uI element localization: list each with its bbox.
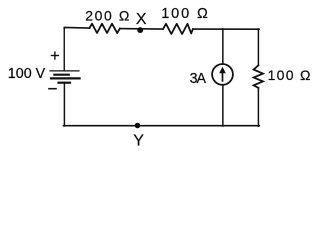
svg-text:100 V: 100 V — [8, 66, 46, 82]
svg-text:200 Ω: 200 Ω — [85, 8, 131, 24]
wire: top rail right segment (R2 to top-right corner) — [193, 28, 259, 30]
battery V1: plate 3 (long) — [51, 77, 80, 79]
wire: current source branch, I1 down to bottom rail junction — [222, 85, 224, 126]
battery V1: plate 4 (short, negative) — [59, 82, 71, 84]
wire: right vertical (top-right corner down to R3) — [257, 29, 259, 65]
svg-text:100 Ω: 100 Ω — [268, 67, 311, 83]
battery V1: plus terminal mark — [52, 52, 59, 59]
wire: top rail left segment (corner to R1) — [64, 27, 89, 30]
current source I1: arrow shaft (pointing up) — [222, 72, 224, 81]
node Y junction dot — [135, 123, 141, 129]
wire: bottom rail (through node Y to bottom-right corner) — [64, 125, 260, 127]
wire: right vertical (R3 down to bottom-right corner) — [257, 88, 259, 126]
wire: current source branch, top wire junction down to I1 — [222, 29, 224, 64]
svg-text:Y: Y — [133, 133, 144, 146]
node X junction dot — [137, 27, 143, 33]
battery V1: plate 2 (short) — [54, 74, 68, 76]
battery V1 100 V: plate 1 (long, positive) — [50, 70, 79, 72]
current source I1 3A (circle) — [212, 64, 233, 85]
resistor R3 100 ohm (vertical zigzag, right branch) — [254, 65, 263, 88]
wire: top rail between R1 and R2 (through node X) — [120, 28, 163, 30]
svg-text:X: X — [136, 11, 147, 28]
wire: left vertical (battery - plate down to bottom-left corner) — [63, 83, 65, 126]
resistor R1 200 ohm (zigzag, top-left) — [90, 24, 120, 33]
resistor R2 100 ohm (zigzag, top-right) — [163, 24, 193, 34]
wire: left vertical (top corner down to battery + plate) — [63, 28, 65, 71]
battery V1: minus terminal mark — [49, 88, 56, 90]
current source I1: arrowhead — [219, 67, 226, 74]
svg-text:100 Ω: 100 Ω — [161, 6, 210, 22]
svg-text:3A: 3A — [190, 71, 207, 87]
